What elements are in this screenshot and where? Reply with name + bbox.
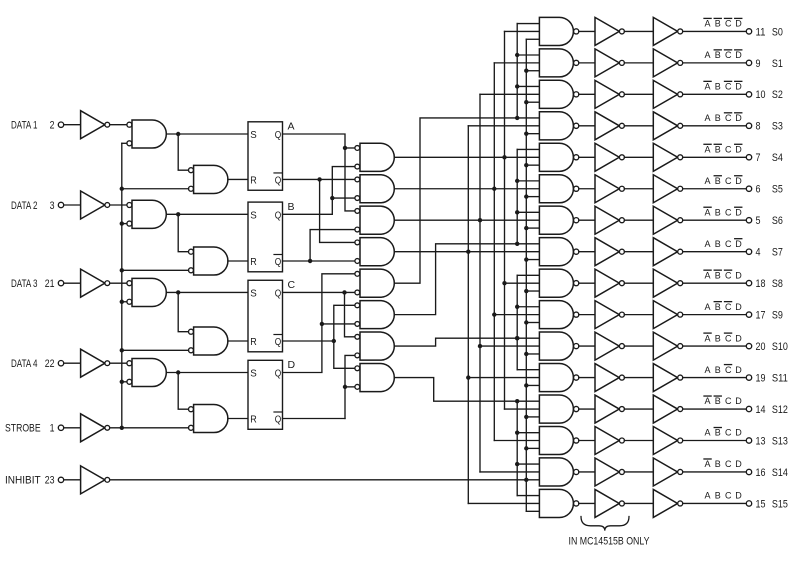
NAND gate decoder row S11: [539, 364, 573, 392]
inverter U2-2: [653, 80, 677, 108]
junction quad bus feed row 3: [515, 116, 519, 120]
svg-text:S1: S1: [772, 58, 783, 70]
inverter U2-12: [653, 395, 677, 423]
wire DATA 3 terminal to buffer: [64, 282, 81, 284]
bubble inverter U1-1: [619, 60, 624, 65]
svg-text:Q: Q: [275, 414, 282, 426]
wire inverter DATA 2 to AND gate: [110, 204, 127, 206]
junction inhibit bus row 8: [524, 289, 528, 293]
wire NAND S11 to inverter: [579, 377, 595, 379]
svg-text:A: A: [705, 365, 711, 375]
bubble inverter U1-6: [619, 218, 624, 223]
junction QbarA branch: [317, 177, 321, 181]
wire NAND S10 to inverter: [579, 345, 595, 347]
bubble G3 (A'B) input 2: [355, 227, 360, 232]
inverter U1-8 (MC14515B only): [595, 269, 619, 297]
svg-text:S2: S2: [772, 89, 783, 101]
wire G5 output feed to quad bus rows 0-3: [394, 118, 539, 283]
output terminal S1 pin 9: [746, 58, 783, 70]
svg-text:A: A: [705, 207, 711, 217]
svg-text:S6: S6: [772, 215, 783, 227]
svg-text:14: 14: [756, 404, 766, 416]
svg-text:B: B: [715, 19, 721, 29]
bubble G3 (A'B) input 1: [355, 209, 360, 214]
wire junction down to R-gate C: [178, 292, 188, 331]
bubble inverter U1-11: [619, 375, 624, 380]
junction STROBE line to vertical: [120, 426, 124, 430]
junction G2 (AB') output at AB bus: [492, 187, 496, 191]
junction quad bus row 5: [515, 179, 519, 183]
svg-text:C: C: [725, 19, 732, 29]
svg-text:B: B: [715, 176, 721, 186]
wire to output terminal S14: [683, 471, 747, 473]
bubble inverter U2-11: [678, 375, 683, 380]
svg-text:S9: S9: [772, 310, 783, 322]
bubble NAND S1 output: [574, 60, 579, 65]
wire NAND S0 to inverter: [579, 30, 595, 32]
svg-text:C: C: [725, 302, 732, 312]
wire quad bus rows 12-15: [516, 401, 518, 495]
output terminal S3 pin 8: [746, 121, 783, 133]
wire STROBE terminal to buffer: [64, 427, 81, 429]
svg-text:Q: Q: [275, 287, 282, 299]
wire junction down to R-gate B: [178, 214, 188, 251]
AND gate G2 (AB'): [360, 175, 394, 203]
svg-text:D: D: [735, 50, 742, 60]
svg-text:C: C: [288, 279, 296, 291]
label minterm S4: [704, 144, 742, 154]
svg-text:S4: S4: [772, 152, 783, 164]
junction node S-B: [176, 212, 180, 216]
wire inverter U1-9 to buffer: [624, 314, 653, 316]
svg-text:C: C: [725, 239, 732, 249]
label minterm S1: [705, 50, 743, 60]
svg-text:B: B: [715, 82, 721, 92]
junction QA at G1 input 1: [343, 146, 347, 150]
svg-text:5: 5: [756, 215, 761, 227]
NAND gate decoder row S8: [539, 269, 573, 297]
wire strobe line to AND-D input 2: [122, 381, 127, 383]
wire stub3 decoder row 13: [526, 447, 539, 449]
svg-text:C: C: [725, 396, 732, 406]
wire stub1 decoder row 13: [517, 432, 539, 434]
bubble inverter U1-15: [619, 501, 624, 506]
brace IN MC14515B ONLY: [581, 517, 629, 531]
output terminal S2 pin 10: [746, 89, 783, 101]
wire AND S-C output to latch S: [166, 291, 248, 293]
svg-text:8: 8: [756, 121, 761, 133]
svg-text:D: D: [735, 428, 742, 438]
AND gate G4 (AB): [360, 238, 394, 266]
bubble R-gate A input 1: [189, 168, 194, 173]
svg-text:S11: S11: [772, 372, 788, 384]
junction strobe at R-gate A input 2: [120, 187, 124, 191]
svg-text:S: S: [250, 209, 256, 221]
bubble G4 (AB) input 1: [355, 240, 360, 245]
wire STROBE to R-gate D input 2: [110, 427, 189, 429]
inverter U1-3 (MC14515B only): [595, 112, 619, 140]
bubble NAND S2 output: [574, 92, 579, 97]
wire AB bus G2 (AB') top stub row 1: [494, 62, 539, 64]
wire NAND S7 to inverter: [579, 251, 595, 253]
wire AB bus G3 (A'B) tap row 10: [480, 345, 539, 347]
junction inhibit bus row 6: [524, 226, 528, 230]
junction inhibit bus row 12: [524, 415, 528, 419]
inverter U1-15 (MC14515B only): [595, 489, 619, 517]
output terminal S5 pin 6: [746, 184, 783, 196]
wire to output terminal S7: [683, 251, 747, 253]
svg-text:R: R: [250, 414, 257, 426]
wire stub1 decoder row 11: [517, 369, 539, 371]
svg-text:A: A: [705, 491, 711, 501]
wire stub3 decoder row 0: [526, 38, 539, 40]
bubble NAND S14 output: [574, 469, 579, 474]
wire inverter U1-8 to buffer: [624, 282, 653, 284]
junction node S-A: [176, 132, 180, 136]
svg-text:A: A: [705, 144, 711, 154]
svg-text:B: B: [715, 207, 721, 217]
bubble inverter U1-2: [619, 92, 624, 97]
svg-text:Q: Q: [275, 256, 282, 268]
inverter buffer DATA 2: [81, 191, 105, 219]
NAND gate decoder row S15: [539, 489, 573, 517]
wire stub3 decoder row 15: [526, 510, 539, 512]
wire stub3 decoder row 4: [526, 164, 539, 166]
svg-text:11: 11: [756, 26, 766, 38]
wire AB bus G4 (AB) tap row 11: [468, 377, 539, 379]
wire inverter DATA 1 to AND gate: [110, 124, 127, 126]
wire inverter U1-0 to buffer: [624, 30, 653, 32]
junction quad bus feed row 10: [515, 336, 519, 340]
wire R-gate B output to latch R: [228, 260, 248, 262]
bubble inverter U1-14: [619, 469, 624, 474]
wire G4 (AB) output to decoder row 7: [394, 251, 539, 253]
junction node S-C: [176, 290, 180, 294]
label minterm S12: [704, 396, 742, 406]
label minterm S15: [705, 491, 743, 501]
svg-text:S12: S12: [772, 404, 788, 416]
svg-text:A: A: [288, 121, 295, 133]
input terminal DATA 1 pin 2: [11, 120, 64, 132]
svg-text:D: D: [735, 491, 742, 501]
svg-text:R: R: [250, 256, 257, 268]
NAND gate decoder row S5: [539, 175, 573, 203]
latch C (S-R): [248, 280, 283, 352]
svg-text:A: A: [705, 113, 711, 123]
svg-text:C: C: [725, 365, 732, 375]
wire stub1 decoder row 6: [517, 211, 539, 213]
wire inverter U1-6 to buffer: [624, 219, 653, 221]
wire AB bus G2 (AB') bottom stub row 13: [494, 440, 539, 442]
inverter U1-13 (MC14515B only): [595, 427, 619, 455]
wire NAND S15 to inverter: [579, 502, 595, 504]
wire to output terminal S15: [683, 502, 747, 504]
inverter U1-4 (MC14515B only): [595, 143, 619, 171]
NAND gate decoder row S3: [539, 112, 573, 140]
svg-text:C: C: [725, 459, 732, 469]
wire stub1 decoder row 2: [517, 85, 539, 87]
bubble NAND S9 output: [574, 312, 579, 317]
wire stub3 decoder row 1: [526, 70, 539, 72]
svg-text:3: 3: [50, 200, 55, 212]
junction QbarB branch: [308, 259, 312, 263]
svg-text:C: C: [725, 428, 732, 438]
NAND gate decoder row S10: [539, 332, 573, 360]
svg-text:10: 10: [756, 89, 766, 101]
junction inhibit bus row 5: [524, 194, 528, 198]
svg-text:B: B: [715, 459, 721, 469]
wire stub3 decoder row 11: [526, 384, 539, 386]
svg-text:D: D: [735, 333, 742, 343]
junction AB bus G3 (A'B) row 10: [478, 344, 482, 348]
svg-text:21: 21: [45, 278, 55, 290]
label minterm S6: [704, 207, 742, 217]
svg-text:23: 23: [45, 475, 55, 487]
bubble NAND S3 output: [574, 123, 579, 128]
junction inhibit bus row 10: [524, 352, 528, 356]
svg-text:R: R: [250, 336, 257, 348]
svg-text:S7: S7: [772, 247, 783, 259]
bubble inverter U2-9: [678, 312, 683, 317]
wire NAND S9 to inverter: [579, 314, 595, 316]
AND gate G1 (A'B'): [360, 143, 394, 171]
bubble R-gate C input 2: [189, 348, 194, 353]
svg-text:A: A: [705, 428, 711, 438]
AND gate G6 (CD'): [360, 301, 394, 329]
latch A (S-R): [248, 122, 283, 190]
svg-text:D: D: [735, 144, 742, 154]
inverter U1-2 (MC14515B only): [595, 80, 619, 108]
wire inverter U1-11 to buffer: [624, 377, 653, 379]
inverter U2-0: [653, 17, 677, 45]
wire to output terminal S0: [683, 30, 747, 32]
junction inhibit bus row 9: [524, 320, 528, 324]
wire NAND S6 to inverter: [579, 219, 595, 221]
bubble inverter DATA 2 output: [105, 203, 110, 208]
AND gate R-A: [194, 165, 228, 193]
NAND gate decoder row S14: [539, 458, 573, 486]
inverter U2-14: [653, 458, 677, 486]
bubble inverter U2-12: [678, 407, 683, 412]
label minterm S9: [705, 302, 743, 312]
wire to output terminal S8: [683, 282, 747, 284]
NAND gate decoder row S12: [539, 395, 573, 423]
bubble AND-B input 1: [127, 203, 132, 208]
label minterm S11: [705, 365, 743, 375]
bubble R-gate D input 1: [189, 407, 194, 412]
bubble G8 (CD) input 1: [355, 366, 360, 371]
bubble inverter U1-10: [619, 344, 624, 349]
bubble inverter U1-9: [619, 312, 624, 317]
svg-text:D: D: [735, 365, 742, 375]
svg-text:D: D: [735, 270, 742, 280]
bubble inverter U2-3: [678, 123, 683, 128]
inverter U2-1: [653, 49, 677, 77]
AND gate R-C: [194, 327, 228, 355]
inverter U1-0 (MC14515B only): [595, 17, 619, 45]
svg-text:S15: S15: [772, 498, 788, 510]
wire strobe line to R-gate B input 2: [122, 269, 189, 271]
bubble R-gate B input 1: [189, 249, 194, 254]
junction quad bus feed row 7: [515, 242, 519, 246]
bubble R-gate D input 2: [189, 425, 194, 430]
input terminal DATA 3 pin 21: [11, 278, 64, 290]
wire stub3 decoder row 7: [526, 259, 539, 261]
junction node S-D: [176, 370, 180, 374]
svg-text:C: C: [725, 113, 732, 123]
wire stub1 decoder row 8: [517, 274, 539, 276]
wire strobe line to AND-B input 2: [122, 223, 127, 225]
svg-text:A: A: [705, 459, 711, 469]
junction G3 (A'B) output at AB bus: [478, 218, 482, 222]
wire stub3 decoder row 3: [526, 133, 539, 135]
wire inverter U1-12 to buffer: [624, 408, 653, 410]
bubble G7 (C'D) input 2: [355, 353, 360, 358]
bubble NAND S4 output: [574, 155, 579, 160]
bubble AND-A input 1: [127, 122, 132, 127]
NAND gate decoder row S6: [539, 206, 573, 234]
bubble R-gate A input 2: [189, 186, 194, 191]
inverter U2-13: [653, 427, 677, 455]
inverter U2-10: [653, 332, 677, 360]
svg-text:B: B: [715, 239, 721, 249]
bubble NAND S12 output: [574, 406, 579, 411]
wire stub1 decoder row 0: [517, 23, 539, 25]
wire DATA 4 terminal to buffer: [64, 362, 81, 364]
NAND gate decoder row S9: [539, 301, 573, 329]
junction inhibit bus row 4: [524, 163, 528, 167]
svg-text:DATA 2: DATA 2: [11, 200, 38, 212]
wire stub3 decoder row 6: [526, 227, 539, 229]
wire to output terminal S10: [683, 345, 747, 347]
wire NAND S3 to inverter: [579, 125, 595, 127]
svg-text:C: C: [725, 82, 732, 92]
wire stub1 decoder row 1: [517, 54, 539, 56]
output terminal S7 pin 4: [746, 247, 783, 259]
junction strobe at AND-B input 2: [120, 221, 124, 225]
wire strobe vertical line: [121, 143, 123, 428]
svg-text:4: 4: [756, 247, 761, 259]
wire stub3 decoder row 8: [526, 290, 539, 292]
output terminal S10 pin 20: [746, 341, 788, 353]
wire INHIBIT to NAND column (row S14 input 3): [110, 479, 540, 481]
wire AB bus G2 (AB') tap row 9: [494, 314, 539, 316]
NAND gate decoder row S7: [539, 238, 573, 266]
label minterm S7: [705, 239, 743, 249]
latch B (S-R): [248, 202, 283, 272]
AND gate G3 (A'B): [360, 206, 394, 234]
junction strobe at R-gate B input 2: [120, 268, 124, 272]
svg-text:7: 7: [756, 152, 761, 164]
wire AND S-D output to latch S: [166, 372, 248, 374]
svg-text:B: B: [288, 201, 295, 213]
output terminal S0 pin 11: [746, 26, 783, 38]
junction quad bus row 14: [515, 462, 519, 466]
inverter U2-4: [653, 143, 677, 171]
label minterm S5: [705, 176, 743, 186]
wire AB bus G3 (A'B) top stub row 2: [480, 93, 539, 95]
bubble AND-C input 1: [127, 281, 132, 286]
wire inverter U1-2 to buffer: [624, 93, 653, 95]
wire G8 output feed to quad bus rows 12-15: [394, 378, 539, 402]
wire to output terminal S3: [683, 125, 747, 127]
wire inverter U1-10 to buffer: [624, 345, 653, 347]
svg-text:C: C: [725, 270, 732, 280]
latch D (S-R): [248, 360, 283, 429]
svg-text:C: C: [725, 207, 732, 217]
inverter U1-14 (MC14515B only): [595, 458, 619, 486]
junction G4 (AB) output at AB bus: [466, 249, 470, 253]
svg-text:A: A: [705, 176, 711, 186]
wire junction down to R-gate D: [178, 373, 188, 410]
label minterm S2: [704, 81, 742, 91]
bubble inverter U2-0: [678, 29, 683, 34]
bubble inverter U2-10: [678, 344, 683, 349]
svg-text:Q: Q: [275, 368, 282, 380]
bubble inverter U2-8: [678, 281, 683, 286]
bubble NAND S8 output: [574, 281, 579, 286]
junction AB bus G4 (AB) row 11: [466, 375, 470, 379]
wire NAND S13 to inverter: [579, 440, 595, 442]
svg-text:B: B: [715, 144, 721, 154]
input terminal DATA 4 pin 22: [11, 358, 64, 370]
wire inverter U1-5 to buffer: [624, 188, 653, 190]
svg-text:A: A: [705, 302, 711, 312]
svg-text:17: 17: [756, 310, 766, 322]
wire inverter U1-15 to buffer: [624, 502, 653, 504]
svg-text:B: B: [715, 333, 721, 343]
bubble G6 (CD') input 2: [355, 322, 360, 327]
wire net QD (latch D Q to G5/G6 inputs): [283, 274, 355, 373]
inverter U1-6 (MC14515B only): [595, 206, 619, 234]
wire stub3 decoder row 10: [526, 353, 539, 355]
wire stub1 decoder row 5: [517, 180, 539, 182]
label minterm S13: [705, 428, 743, 438]
wire AND S-A output to latch S: [166, 133, 248, 135]
AND gate S-D: [132, 358, 166, 386]
bubble inverter U1-13: [619, 438, 624, 443]
wire stub3 decoder row 2: [526, 101, 539, 103]
bubble AND-D input 2: [127, 379, 132, 384]
label minterm S10: [704, 333, 742, 343]
wire NAND S14 to inverter: [579, 471, 595, 473]
wire AB bus G2 (AB'): [493, 63, 495, 441]
bubble inverter U1-0: [619, 29, 624, 34]
junction quad bus row 2: [515, 84, 519, 88]
svg-text:D: D: [735, 396, 742, 406]
bubble inverter U2-7: [678, 249, 683, 254]
wire inverter U1-3 to buffer: [624, 125, 653, 127]
svg-text:S8: S8: [772, 278, 783, 290]
svg-text:S: S: [250, 287, 256, 299]
junction INHIBIT at inhibit bus: [524, 478, 528, 482]
AND gate G8 (CD): [360, 364, 394, 392]
svg-text:S0: S0: [772, 26, 783, 38]
bubble G1 (A'B') input 2: [355, 164, 360, 169]
svg-text:B: B: [715, 428, 721, 438]
wire quad bus rows 8-11: [516, 275, 518, 369]
bubble inverter U1-5: [619, 186, 624, 191]
bubble inverter STROBE output: [105, 425, 110, 430]
inverter U2-3: [653, 112, 677, 140]
wire stub3 decoder row 12: [526, 416, 539, 418]
wire net QbarA (latch A Qbar to G2/G4 inputs): [283, 178, 355, 180]
wire AB bus G4 (AB): [467, 126, 469, 504]
junction inhibit bus row 2: [524, 100, 528, 104]
output terminal S13 pin 13: [746, 435, 788, 447]
wire inverter DATA 4 to AND gate: [110, 362, 127, 364]
junction inhibit bus row 13: [524, 446, 528, 450]
